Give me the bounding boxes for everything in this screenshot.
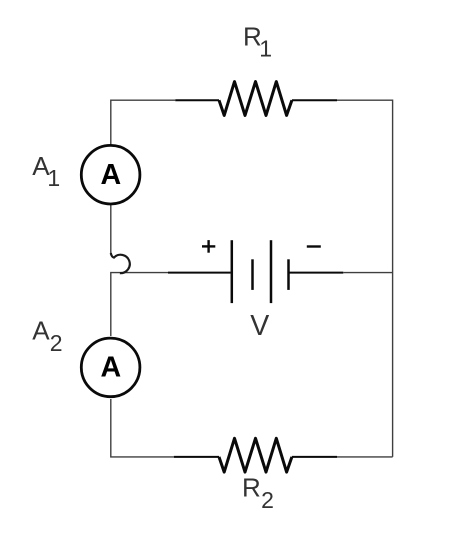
wire middle-right: [343, 272, 392, 274]
svg-text:A: A: [101, 352, 122, 384]
wire bottom-right: [337, 456, 393, 458]
svg-text:2: 2: [50, 330, 63, 356]
wire A1 bottom to hop: [110, 204, 112, 254]
ammeter A1: [81, 145, 140, 204]
ammeter A2: [81, 338, 140, 397]
wire A2 bottom to bottom-left corner: [111, 399, 174, 457]
label A1: [32, 151, 60, 191]
plus sign: [202, 240, 215, 253]
label R2: [242, 473, 274, 513]
svg-text:A: A: [101, 159, 122, 191]
resistor R2: [174, 438, 337, 472]
svg-text:A: A: [32, 315, 50, 345]
svg-text:2: 2: [261, 487, 274, 513]
wire top-left corner to ammeter A1: [111, 100, 176, 146]
svg-text:1: 1: [47, 165, 60, 191]
minus sign: [307, 245, 321, 247]
label A2: [32, 315, 62, 356]
svg-text:V: V: [250, 310, 269, 342]
wire middle-left corner down to ammeter A2: [111, 273, 168, 336]
battery V: [168, 240, 343, 303]
svg-text:1: 1: [259, 35, 272, 61]
svg-text:R: R: [242, 473, 261, 503]
label R1: [243, 22, 272, 62]
wire top-right corner and right vertical: [337, 100, 393, 457]
hop (loop) at left middle junction: [111, 253, 130, 273]
resistor R1: [175, 82, 337, 116]
